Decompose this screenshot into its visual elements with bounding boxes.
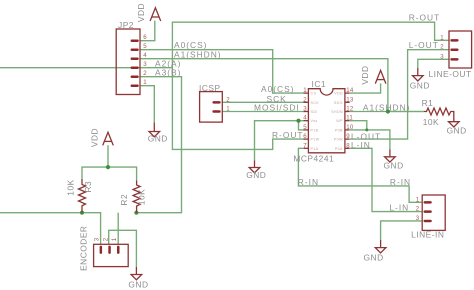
label A3(B) bbox=[155, 68, 181, 78]
connector JP2 bbox=[116, 29, 140, 95]
svg-text:1: 1 bbox=[226, 106, 230, 113]
svg-text:GND: GND bbox=[384, 160, 404, 170]
svg-text:P0A: P0A bbox=[335, 147, 343, 151]
svg-text:12: 12 bbox=[346, 106, 354, 113]
svg-text:R3: R3 bbox=[83, 181, 93, 193]
ground at LINE-IN bbox=[375, 240, 386, 253]
resistor R1 bbox=[424, 108, 454, 122]
svg-text:3: 3 bbox=[94, 237, 101, 241]
svg-text:MCP4241: MCP4241 bbox=[293, 154, 334, 164]
wire net A3(B) JP2 pin2 to R2 bottom bbox=[136, 77, 181, 213]
JP2 pin numbers bbox=[143, 34, 147, 86]
svg-text:A0(CS): A0(CS) bbox=[174, 40, 207, 50]
power VDD at IC1 bbox=[375, 70, 386, 83]
label L-OUT at IC1 bbox=[351, 131, 381, 141]
svg-text:A0(CS): A0(CS) bbox=[261, 84, 294, 94]
LINE-IN pin numbers bbox=[416, 196, 420, 222]
wire IC1 pin12 SHDN to R1 bbox=[350, 111, 424, 113]
GND label at encoder bbox=[128, 280, 148, 290]
VDD label top-left bbox=[136, 3, 146, 22]
svg-text:JP2: JP2 bbox=[118, 20, 134, 30]
node A1(SHDN) R1 junction bbox=[386, 109, 390, 113]
svg-text:9: 9 bbox=[346, 133, 350, 140]
R3 name bbox=[83, 181, 93, 193]
label R-OUT top bbox=[409, 13, 441, 23]
svg-text:VDD: VDD bbox=[334, 92, 343, 96]
svg-text:VDD: VDD bbox=[360, 65, 370, 84]
ground below JP2 bbox=[149, 123, 160, 137]
op-amp U placeholder: IC1 MCP4241 body bbox=[308, 89, 345, 153]
svg-text:10K: 10K bbox=[66, 179, 76, 195]
svg-text:4: 4 bbox=[303, 115, 307, 122]
svg-text:MOSI/SDI: MOSI/SDI bbox=[254, 103, 300, 113]
label A2(A) bbox=[155, 59, 181, 69]
GND label at IC1 VSS bbox=[246, 170, 266, 180]
VDD label at encoder bbox=[90, 128, 100, 147]
label MOSI/SDI bbox=[254, 103, 300, 113]
wire LINE-OUT pin3 to GND bbox=[418, 59, 449, 68]
svg-text:R-OUT: R-OUT bbox=[272, 130, 304, 140]
wire net L-IN IC1 pin8 to LINE-IN pin2 bbox=[350, 148, 422, 211]
wire IC1 pin14 to VDD bbox=[350, 83, 381, 93]
svg-text:P1B: P1B bbox=[311, 128, 319, 132]
IC1 internal pin names left bbox=[311, 92, 320, 151]
svg-text:R-OUT: R-OUT bbox=[409, 13, 441, 23]
svg-text:4: 4 bbox=[143, 52, 147, 59]
svg-text:GND: GND bbox=[148, 134, 168, 144]
wire net A2(A) from left edge through JP2 pin3 bbox=[0, 67, 172, 69]
ground at encoder bbox=[131, 267, 142, 280]
svg-text:L-IN: L-IN bbox=[351, 140, 371, 150]
connector ICSP bbox=[200, 92, 223, 123]
wire net A2(A) left edge to encoder pin3 bbox=[0, 213, 101, 245]
svg-text:VDD: VDD bbox=[136, 3, 146, 22]
JP2 name bbox=[118, 20, 134, 30]
svg-text:11: 11 bbox=[346, 115, 353, 122]
svg-text:10: 10 bbox=[346, 124, 354, 131]
svg-text:GND: GND bbox=[246, 170, 266, 180]
connector ENCODER bbox=[94, 244, 129, 266]
svg-text:L-OUT: L-OUT bbox=[409, 40, 439, 50]
svg-text:2: 2 bbox=[440, 44, 444, 51]
svg-text:R-IN: R-IN bbox=[390, 177, 411, 187]
IC1 right pin numbers bbox=[346, 87, 354, 149]
node VDD rail junction bbox=[106, 165, 110, 169]
svg-text:6: 6 bbox=[143, 34, 147, 41]
R1 value 10K bbox=[423, 117, 439, 127]
ground at IC1 VSS bbox=[249, 160, 260, 173]
svg-text:R1: R1 bbox=[422, 98, 434, 108]
resistor R3 bbox=[79, 179, 86, 213]
svg-text:R2: R2 bbox=[119, 194, 129, 206]
connector LINE-OUT bbox=[449, 31, 472, 68]
svg-text:SHDN: SHDN bbox=[331, 110, 343, 114]
resistor R2 bbox=[133, 181, 140, 213]
svg-text:A3(B): A3(B) bbox=[155, 68, 181, 78]
svg-text:L-IN: L-IN bbox=[389, 203, 409, 213]
node IC1 pin4 junction bbox=[296, 119, 300, 123]
label R-IN at LINE-IN bbox=[390, 177, 411, 187]
svg-text:6: 6 bbox=[303, 133, 307, 140]
svg-text:5: 5 bbox=[303, 124, 307, 131]
node WP P0B junction bbox=[365, 128, 368, 131]
svg-text:Vss: Vss bbox=[311, 119, 318, 123]
node R3 bottom junction bbox=[80, 211, 84, 215]
wire IC1 pin10 P0B to GND bbox=[350, 130, 390, 150]
svg-text:1: 1 bbox=[440, 34, 444, 41]
power VDD at encoder bbox=[103, 132, 114, 145]
svg-text:GND: GND bbox=[128, 280, 148, 290]
svg-text:1: 1 bbox=[416, 196, 420, 203]
R2 name bbox=[119, 194, 129, 206]
ENCODER pin numbers bbox=[94, 237, 118, 241]
svg-text:R-IN: R-IN bbox=[298, 177, 319, 187]
svg-text:A1(SHDN): A1(SHDN) bbox=[363, 103, 411, 113]
IC1 internal pin names right bbox=[331, 92, 343, 151]
IC1 pin stubs right bbox=[345, 93, 350, 148]
svg-text:LINE-IN: LINE-IN bbox=[411, 229, 444, 239]
GND label at R1 bbox=[447, 126, 467, 136]
label R-IN at IC1 bbox=[298, 177, 319, 187]
wire net MOSI/SDI ICSP pin1 to IC1 pin3 bbox=[222, 111, 304, 113]
ICSP name bbox=[199, 83, 221, 93]
svg-text:SDO: SDO bbox=[334, 101, 343, 105]
svg-text:CS: CS bbox=[311, 92, 317, 96]
svg-text:14: 14 bbox=[346, 87, 354, 94]
svg-text:SCK: SCK bbox=[311, 101, 320, 105]
IC1 value MCP4241 bbox=[293, 154, 334, 164]
wire net R-OUT loop IC1 pin6 to LINE-OUT pin1 bbox=[172, 22, 449, 149]
GND label at IC1 WP bbox=[384, 160, 404, 170]
wire VDD rail to R3 R2 tops bbox=[82, 145, 137, 180]
connector LINE-IN bbox=[422, 195, 445, 230]
svg-text:3: 3 bbox=[303, 106, 307, 113]
svg-text:3: 3 bbox=[416, 215, 420, 222]
svg-text:ICSP: ICSP bbox=[199, 83, 221, 93]
wire IC1 pin11 WP join pin10 bbox=[350, 121, 367, 130]
wire net SCK ICSP pin2 to IC1 pin2 bbox=[222, 101, 304, 103]
svg-text:SDI: SDI bbox=[311, 110, 318, 114]
wire encoder pin2 to GND bbox=[109, 230, 137, 267]
label L-OUT top bbox=[409, 40, 439, 50]
wire net L-OUT IC1 pin9 to LINE-OUT pin2 bbox=[350, 50, 449, 139]
VDD label at IC1 bbox=[360, 65, 370, 84]
R1 name bbox=[422, 98, 434, 108]
label R-OUT at IC1 bbox=[272, 130, 304, 140]
wire encoder pin1 to R2 bottom bbox=[117, 213, 119, 245]
node R2 bottom junction bbox=[134, 211, 138, 215]
GND label at LINE-OUT bbox=[410, 80, 430, 90]
GND label at LINE-IN bbox=[364, 252, 384, 262]
svg-text:P0B: P0B bbox=[335, 128, 343, 132]
wire R1 left from SHDN node bbox=[388, 111, 424, 113]
svg-text:8: 8 bbox=[346, 142, 350, 149]
LINE-OUT name bbox=[429, 69, 472, 79]
svg-text:1: 1 bbox=[303, 87, 307, 94]
LINE-OUT pin numbers bbox=[440, 34, 444, 60]
svg-text:WP: WP bbox=[336, 119, 343, 123]
label L-IN at LINE-IN bbox=[389, 203, 409, 213]
wire JP2 pin6 to VDD bbox=[140, 21, 155, 41]
svg-text:GND: GND bbox=[447, 126, 467, 136]
wire JP2 pin1 to GND bbox=[140, 86, 154, 123]
svg-text:13: 13 bbox=[346, 96, 354, 103]
label A0(CS) at JP2 bbox=[174, 40, 207, 50]
svg-text:ENCODER: ENCODER bbox=[79, 226, 89, 271]
svg-text:P1A: P1A bbox=[311, 147, 319, 151]
svg-text:2: 2 bbox=[143, 70, 147, 77]
svg-text:2: 2 bbox=[303, 96, 307, 103]
IC1 left pin numbers bbox=[303, 87, 307, 149]
GND label below JP2 bbox=[148, 134, 168, 144]
IC1 pin stubs left bbox=[304, 93, 309, 148]
ENCODER name bbox=[79, 226, 89, 271]
svg-text:2: 2 bbox=[226, 96, 230, 103]
svg-text:5: 5 bbox=[143, 43, 147, 50]
R3 value 10K bbox=[66, 179, 76, 195]
svg-text:3: 3 bbox=[143, 61, 147, 68]
wire LINE-IN pin3 to GND bbox=[381, 221, 423, 240]
svg-text:1: 1 bbox=[143, 79, 147, 86]
ground at LINE-OUT bbox=[413, 68, 424, 81]
svg-text:10K: 10K bbox=[423, 117, 439, 127]
svg-text:7: 7 bbox=[303, 142, 307, 149]
wire net R-IN IC1 pin7 to LINE-IN pin1 bbox=[298, 148, 422, 202]
power VDD top-left bbox=[150, 8, 161, 21]
svg-text:GND: GND bbox=[364, 252, 384, 262]
svg-text:3: 3 bbox=[440, 53, 444, 60]
ground at IC1 WP bbox=[385, 150, 396, 163]
svg-text:GND: GND bbox=[410, 80, 430, 90]
svg-text:VDD: VDD bbox=[90, 128, 100, 147]
svg-text:LINE-OUT: LINE-OUT bbox=[429, 69, 472, 79]
wire net A0(CS) JP2 pin5 to IC1 pin1 bbox=[140, 50, 304, 93]
svg-text:P1W: P1W bbox=[311, 138, 320, 142]
wire IC1 pin4 VSS to GND and pin5 bracket bbox=[255, 121, 305, 161]
label A1(SHDN) at IC1 bbox=[363, 103, 411, 113]
ICSP pin numbers bbox=[226, 96, 230, 112]
label A1(SHDN) at JP2 bbox=[174, 50, 222, 60]
svg-text:10K: 10K bbox=[137, 189, 147, 205]
label A0(CS) at IC1 bbox=[261, 84, 294, 94]
svg-text:IC1: IC1 bbox=[312, 79, 327, 89]
svg-text:2: 2 bbox=[102, 237, 109, 241]
label SCK bbox=[267, 94, 287, 104]
wire net A1(SHDN) JP2 pin4 down to R1 node bbox=[140, 59, 388, 112]
svg-text:1: 1 bbox=[111, 237, 118, 241]
svg-text:P0W: P0W bbox=[334, 138, 343, 142]
svg-text:2: 2 bbox=[416, 206, 420, 213]
ground at R1 bbox=[449, 122, 460, 127]
IC1 name bbox=[312, 79, 327, 89]
label L-IN at IC1 bbox=[351, 140, 371, 150]
LINE-IN name bbox=[411, 229, 444, 239]
R2 value 10K bbox=[137, 189, 147, 205]
